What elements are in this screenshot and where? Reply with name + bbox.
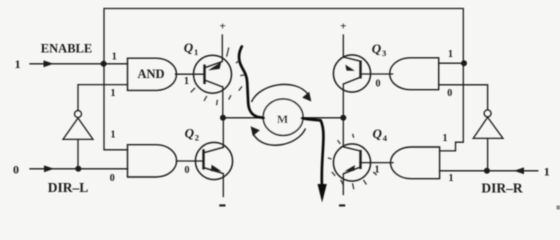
svg-text:0: 0 bbox=[447, 88, 452, 99]
rotation arrow bottom bbox=[253, 129, 306, 146]
svg-text:1: 1 bbox=[448, 49, 453, 60]
svg-text:0: 0 bbox=[110, 173, 115, 184]
svg-text:+: + bbox=[340, 20, 346, 32]
transistor Q1 bbox=[194, 55, 232, 93]
inverter U5 (left) bbox=[63, 111, 93, 140]
wire Q2 collector up to motor node bbox=[222, 118, 224, 148]
wire enable to lower AND gate bbox=[104, 64, 128, 150]
node DIR-L junction bbox=[75, 166, 81, 172]
transistor Q4 bbox=[333, 144, 370, 181]
wire DIR-R input bbox=[440, 170, 538, 172]
svg-text:4: 4 bbox=[383, 133, 388, 143]
AND gate U2 (bottom-left) bbox=[128, 145, 177, 177]
AND gate U4 (bottom-right, mirrored) bbox=[391, 147, 440, 179]
glow ticks Q4 bbox=[328, 134, 377, 190]
svg-text:+: + bbox=[220, 20, 226, 32]
scan speck bottom right bbox=[557, 206, 560, 210]
svg-text:1: 1 bbox=[194, 47, 198, 57]
arrowhead DIR-L input bbox=[44, 165, 54, 172]
svg-text:1: 1 bbox=[111, 129, 116, 140]
svg-text:0: 0 bbox=[376, 78, 381, 89]
wire AND3 top input to right rail bbox=[439, 62, 464, 64]
svg-text:1: 1 bbox=[544, 164, 550, 178]
wire Q4 collector up to motor node bbox=[342, 118, 344, 147]
wire inverter L to DIR-L junction bbox=[77, 139, 79, 168]
node Q3/Q4 motor right bbox=[340, 115, 346, 121]
node DIR-R junction bbox=[484, 168, 490, 174]
svg-text:1: 1 bbox=[112, 51, 117, 62]
node Q1/Q2 motor left bbox=[220, 115, 226, 121]
wire Q1 emitter to + bbox=[221, 35, 223, 62]
label - under Q4 bbox=[339, 204, 345, 206]
motor M bbox=[263, 99, 303, 135]
wire motor right bbox=[303, 117, 344, 119]
label - under Q2 bbox=[219, 204, 225, 206]
wire AND3 lower input to inverter R bbox=[439, 85, 488, 110]
wire AND4 output to Q4 base bbox=[360, 162, 393, 164]
svg-text:0: 0 bbox=[13, 162, 19, 176]
svg-text:Q: Q bbox=[372, 41, 382, 56]
node ENABLE junction bbox=[101, 61, 107, 67]
node right rail junction bbox=[461, 60, 467, 66]
svg-text:Q: Q bbox=[184, 40, 194, 55]
arrowhead DIR-R input bbox=[514, 167, 524, 174]
svg-text:Q: Q bbox=[373, 126, 383, 141]
wire AND1 output to Q1 base bbox=[176, 73, 205, 75]
svg-text:1: 1 bbox=[111, 88, 116, 99]
current path thick arrow bbox=[239, 47, 323, 185]
transistor Q2 bbox=[195, 142, 232, 179]
wire motor left bbox=[223, 117, 264, 119]
wire Q4 emitter to - bbox=[342, 174, 344, 195]
svg-text:0: 0 bbox=[185, 165, 190, 176]
wire DIR-L input bbox=[30, 168, 128, 170]
arrowhead enable input bbox=[44, 60, 54, 67]
svg-text:1: 1 bbox=[15, 57, 21, 71]
wire AND2 output to Q2 base bbox=[177, 160, 204, 162]
wire inverter L output to AND1 lower input bbox=[78, 85, 128, 111]
wire Q3 emitter to + bbox=[342, 35, 344, 57]
glow ticks Q1 bbox=[191, 48, 245, 106]
wire top rail bbox=[104, 9, 463, 64]
wire AND3 output to Q3 base bbox=[360, 73, 392, 75]
svg-text:2: 2 bbox=[195, 132, 199, 142]
svg-text:1: 1 bbox=[375, 165, 380, 176]
svg-text:DIR–R: DIR–R bbox=[481, 180, 523, 195]
svg-text:1: 1 bbox=[184, 76, 189, 87]
svg-text:Q: Q bbox=[185, 125, 195, 140]
wire Q2 emitter to - bbox=[222, 174, 224, 197]
svg-text:ENABLE: ENABLE bbox=[41, 42, 92, 56]
transistor Q3 bbox=[333, 55, 370, 92]
wire right rail down to AND4 top input bbox=[440, 63, 464, 151]
wire enable input bbox=[30, 63, 128, 65]
svg-text:1: 1 bbox=[443, 133, 448, 144]
wire Q3 collector down to motor node bbox=[342, 84, 344, 118]
AND gate U1 (top-left) bbox=[128, 58, 177, 90]
svg-text:1: 1 bbox=[449, 173, 454, 184]
AND gate U3 (top-right, mirrored) bbox=[390, 58, 439, 90]
svg-text:AND: AND bbox=[137, 67, 164, 81]
wire inverter R to DIR-R junction bbox=[487, 138, 489, 170]
svg-text:3: 3 bbox=[382, 48, 386, 58]
svg-text:DIR–L: DIR–L bbox=[48, 180, 89, 195]
inverter U6 (right) bbox=[473, 110, 503, 138]
wire Q1 collector down to motor node bbox=[222, 87, 224, 118]
rotation arrow top bbox=[252, 84, 309, 102]
svg-text:M: M bbox=[277, 112, 288, 126]
